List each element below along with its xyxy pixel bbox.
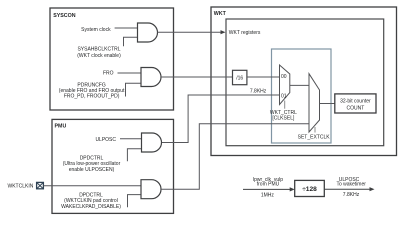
block PMU (52, 119, 174, 213)
wire mux M2 output to counter (320, 103, 335, 105)
svg-text:COUNT: COUNT (347, 105, 365, 111)
svg-text:1MHz: 1MHz (261, 192, 275, 198)
32-bit counter box (335, 94, 376, 113)
and-gate U3 (ULPOSC enable) (142, 133, 162, 152)
svg-text:enable ULPOSCEN): enable ULPOSCEN) (69, 167, 115, 173)
svg-text:7.8KHz: 7.8KHz (250, 88, 267, 94)
svg-text:FRO_PD, FROOUT_PD): FRO_PD, FROOUT_PD) (64, 94, 120, 100)
wire ULPOSC 7.8kHz to mux M1 input 01 (162, 95, 280, 143)
block WKT inner (226, 19, 384, 146)
and-gate U1 (WKT clock enable) (138, 23, 158, 42)
arrowhead waketimer (370, 187, 375, 191)
svg-text:To waketimer: To waketimer (336, 182, 366, 188)
svg-text:32-bit counter: 32-bit counter (340, 98, 371, 104)
wire U2 output to /16 divider (161, 76, 233, 78)
divider 128 box (295, 180, 325, 196)
wire mux M1 output to mux M2 (290, 84, 309, 86)
svg-text:÷128: ÷128 (302, 186, 317, 193)
svg-text:SYSCON: SYSCON (53, 13, 76, 19)
svg-text:7.8KHz: 7.8KHz (343, 192, 360, 198)
svg-text:ULPOSC: ULPOSC (95, 137, 116, 143)
and-gate U2 (FRO enable) (141, 68, 161, 87)
svg-text:(WKT clock enable): (WKT clock enable) (77, 53, 121, 59)
arrowhead WKT registers (221, 30, 226, 34)
mux M2 (SET_EXTCLK) (309, 74, 320, 132)
svg-text:System clock: System clock (81, 27, 111, 33)
block WKT (outer) (211, 7, 397, 156)
wire /16 to mux M1 input 00 (247, 76, 280, 78)
svg-text:[CLKSEL]: [CLKSEL] (272, 115, 295, 121)
and-gate U4 (WKTCLKIN pad) (141, 180, 161, 199)
wire System clock to gate U1 (115, 27, 138, 29)
svg-text:SET_EXTCLK: SET_EXTCLK (298, 134, 331, 140)
svg-text:WKT registers: WKT registers (229, 30, 261, 36)
wire FRO to gate U2 (118, 72, 142, 74)
svg-text:WKTCLKIN: WKTCLKIN (8, 184, 34, 190)
svg-text:01: 01 (281, 93, 287, 99)
arrowhead into divider (290, 187, 295, 191)
svg-text:FRO: FRO (103, 70, 114, 76)
wire SYSAHBCLKCTRL to gate U1 (124, 37, 138, 46)
svg-text:from PMU: from PMU (257, 182, 280, 188)
mux M2 select stub (314, 127, 316, 133)
divider /16 box (233, 70, 247, 84)
mux M1 (WKT_CTRL CLKSEL) (280, 65, 290, 105)
wire ULPOSC to gate U3 (120, 138, 142, 140)
svg-text:SYSAHBCLKCTRL: SYSAHBCLKCTRL (77, 46, 120, 52)
wire DPDCTRL to gate U3 (127, 149, 141, 162)
svg-text:WAKECLKPAD_DISABLE): WAKECLKPAD_DISABLE) (61, 204, 121, 210)
svg-text:/16: /16 (236, 75, 243, 81)
wire U4 output to mux M2 external clock input (161, 124, 309, 190)
wire divider output to waketimer (324, 188, 370, 190)
svg-text:PMU: PMU (55, 124, 67, 130)
block SYSCON (50, 8, 174, 110)
svg-text:00: 00 (281, 74, 287, 80)
wire lpwr_clk_vulp into divider (243, 188, 291, 190)
mux M1 select stub (284, 101, 286, 109)
wire WKTCLKIN pin to gate U4 (43, 185, 141, 187)
svg-text:WKT: WKT (214, 11, 227, 17)
wire PDRUNCFG to gate U2 (126, 83, 142, 96)
wire U1 output to WKT registers (158, 31, 222, 33)
wire DPDCTRL to gate U4 (128, 195, 142, 208)
mux enclosure box (272, 49, 332, 143)
pin WKTCLKIN (37, 182, 44, 188)
